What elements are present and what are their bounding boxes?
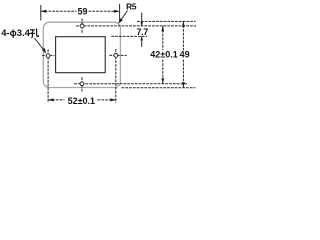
- dim 42 line: [162, 26, 164, 50]
- dim 59 line: [41, 10, 77, 12]
- svg-text:4-ϕ3.4: 4-ϕ3.4: [1, 28, 30, 39]
- hole right: [114, 54, 118, 58]
- svg-text:R5: R5: [126, 1, 137, 11]
- dim 59 extension lines: [40, 5, 42, 21]
- panel cutout rectangle: [56, 37, 106, 73]
- hole top: [80, 24, 84, 28]
- hole top centerlines: [76, 19, 196, 34]
- svg-text:52±0.1: 52±0.1: [68, 96, 95, 106]
- dim 52 line: [48, 99, 64, 101]
- hole bottom centerlines: [74, 77, 187, 92]
- cutout top extension line: [111, 35, 147, 37]
- plate outline: [43, 22, 120, 87]
- plate top extension line: [137, 20, 196, 22]
- dim 49 line: [182, 21, 184, 50]
- leader 4-phi3.4: [35, 38, 45, 51]
- svg-text:7.7: 7.7: [137, 27, 149, 37]
- svg-text:59: 59: [77, 6, 87, 16]
- plate bottom extension line: [122, 87, 196, 89]
- hole right centerlines: [109, 49, 127, 103]
- svg-text:49: 49: [180, 50, 190, 60]
- svg-text:42±0.1: 42±0.1: [150, 50, 177, 60]
- dim 7.7: [141, 13, 143, 26]
- kong CJK glyph (hole): [30, 29, 39, 38]
- hole left centerlines: [42, 49, 55, 102]
- leader R5: [120, 11, 128, 23]
- hole left: [46, 54, 50, 58]
- hole bottom: [80, 82, 84, 86]
